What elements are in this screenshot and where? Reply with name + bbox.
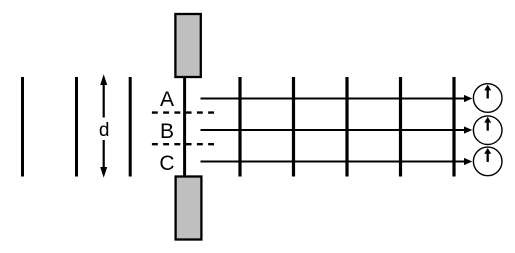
dimension arrow d (upper shaft) — [103, 83, 105, 118]
phase clock A arrowhead — [484, 85, 491, 91]
wavefront line 4 (right) — [238, 77, 241, 177]
dimension arrow d (lower shaft) — [103, 140, 105, 169]
wavefront line 1 (left) — [21, 77, 24, 177]
phase clock C circle — [473, 147, 502, 176]
phase clock B arrowhead — [484, 117, 491, 123]
dashed line between B and C — [152, 143, 214, 145]
wavefront line 2 (left) — [75, 77, 78, 177]
slit screen line — [183, 78, 186, 176]
svg-text:B: B — [160, 120, 174, 143]
ray A shaft — [201, 98, 466, 100]
svg-text:C: C — [159, 152, 174, 175]
dimension arrow d (lower arrowhead) — [100, 167, 107, 178]
phase clock A arrow shaft — [487, 89, 489, 99]
svg-text:d: d — [99, 120, 110, 141]
phase clock B circle — [473, 116, 502, 145]
phase clock B arrow shaft — [487, 121, 489, 131]
phase clock A circle — [473, 84, 502, 113]
barrier top block — [175, 14, 200, 77]
wavefront line 5 (right) — [292, 77, 295, 177]
ray B shaft — [201, 129, 466, 131]
barrier bottom block — [176, 177, 202, 240]
svg-text:A: A — [160, 88, 174, 111]
ray C shaft — [201, 161, 466, 163]
wavefront line 3 (left) — [129, 77, 132, 177]
wavefront line 8 (right) — [452, 77, 455, 177]
dimension arrow d (upper arrowhead) — [100, 74, 107, 85]
wavefront line 6 (right) — [345, 77, 348, 177]
phase clock C arrow shaft — [487, 152, 489, 162]
ray B arrowhead — [464, 126, 472, 133]
ray C arrowhead — [464, 158, 472, 165]
phase clock C arrowhead — [484, 148, 491, 154]
dashed line between A and B — [152, 111, 214, 113]
wavefront line 7 (right) — [399, 77, 402, 177]
ray A arrowhead — [464, 95, 472, 102]
